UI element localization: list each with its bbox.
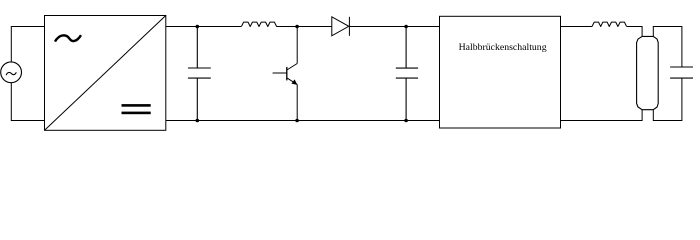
wire: half-bridge output bottom to lamp bottom-left pin [561,110,643,121]
node: Q1 collector junction [295,25,299,29]
rectifier U1 box [45,16,166,131]
node: C2 bottom junction [404,119,408,123]
node: Q1 emitter junction [295,119,299,123]
capacitor C1 [188,27,211,121]
half-bridge block U2 [440,16,561,128]
wire: L1 to diode anode [276,26,331,28]
transistor Q1 [273,27,298,121]
wire: lamp bottom-right pin to C3 bottom [653,78,682,120]
wire: L2 to lamp top-left pin [627,27,642,37]
wire: diode cathode to C2 and half-bridge [349,26,439,28]
wire: rectifier output bottom bus [166,120,440,122]
node: C2 top junction [404,25,408,29]
wire: source bottom to rectifier input [11,83,44,121]
diode D1 [332,17,350,36]
rectifier U1 diagonal [45,16,166,131]
capacitor C3 [670,67,693,78]
wire: source top to rectifier input [11,27,44,62]
lamp LA1 tube [637,36,659,109]
node: C1 bottom junction [196,119,200,123]
svg-text:Halbbrückenschaltung: Halbbrückenschaltung [459,42,547,53]
rectifier U1 AC tilde symbol [55,35,81,41]
capacitor C2 [396,27,418,121]
node: C1 top junction [196,25,200,29]
inductor L2 [592,22,627,26]
ac source G1 [1,62,22,83]
wire: rectifier output top bus to L1 [166,26,241,28]
inductor L1 [241,22,276,26]
rectifier U1 DC equals symbol [122,104,151,114]
wire: lamp top-right pin to C3 top [653,27,682,68]
wire: half-bridge output top to L2 [561,26,593,28]
